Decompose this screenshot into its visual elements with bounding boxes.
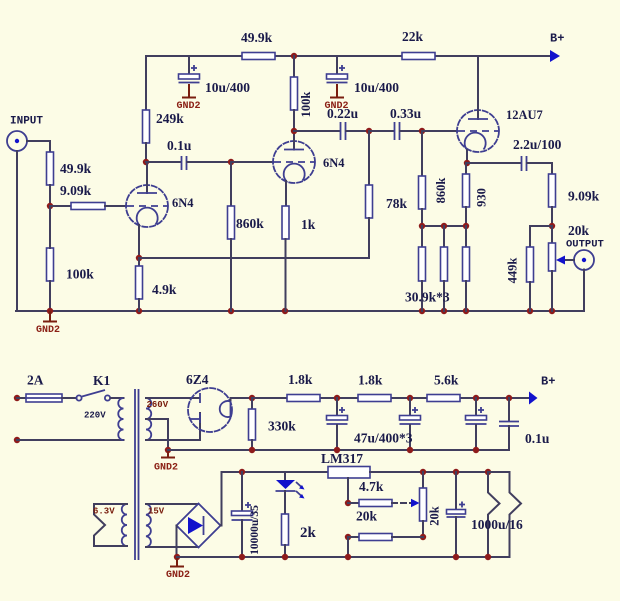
node AC terminal N bbox=[14, 437, 20, 443]
wire 260V centre tap to ground bbox=[146, 419, 168, 450]
resistor 930 bbox=[463, 163, 470, 226]
resistor 4.7k bbox=[348, 500, 392, 507]
svg-text:6N4: 6N4 bbox=[172, 196, 194, 210]
svg-text:930: 930 bbox=[475, 188, 489, 207]
wire 15V bottom to bridge bbox=[146, 546, 199, 548]
PSU-SECTION bbox=[14, 372, 556, 581]
capacitor 47u/400 no.2 bbox=[400, 398, 421, 450]
svg-text:2k: 2k bbox=[300, 525, 317, 541]
OUTPUT connector J2 bbox=[574, 250, 594, 270]
power B+ arrow (psu) bbox=[529, 375, 555, 405]
wire input to 49.9k column bbox=[27, 141, 50, 152]
svg-text:860k: 860k bbox=[236, 216, 264, 231]
ground GND2 (centre tap) bbox=[154, 447, 178, 474]
node V2 plate bbox=[291, 128, 297, 134]
potentiometer 20k output bbox=[549, 226, 556, 311]
wire output to rail bbox=[583, 270, 585, 312]
svg-text:49.9k: 49.9k bbox=[60, 161, 92, 176]
node V1 plate bbox=[143, 159, 149, 165]
wire 260V top to 6Z4 plate1 bbox=[146, 397, 199, 399]
resistor 30.9k no.1 bbox=[419, 226, 426, 311]
svg-text:GND2: GND2 bbox=[154, 463, 178, 474]
svg-text:B+: B+ bbox=[550, 32, 564, 46]
wire V3 cathode bbox=[466, 150, 468, 163]
INPUT connector J1 bbox=[7, 131, 27, 151]
wire divider row bbox=[422, 225, 466, 227]
resistor 20k lower bbox=[345, 534, 426, 558]
node 78k top bbox=[366, 128, 372, 134]
svg-text:249k: 249k bbox=[156, 111, 184, 126]
regulator LM317 bbox=[328, 467, 370, 479]
svg-text:20k: 20k bbox=[356, 509, 378, 524]
svg-text:47u/400*3: 47u/400*3 bbox=[354, 431, 413, 446]
wiper arrow to 20k pot bbox=[556, 256, 574, 265]
resistor 9.09k (output) bbox=[549, 174, 556, 226]
svg-text:0.1u: 0.1u bbox=[167, 138, 192, 153]
svg-text:6N4: 6N4 bbox=[323, 156, 345, 170]
triode V1 6N4 bbox=[126, 162, 168, 227]
rectifier tube 6Z4 bbox=[188, 388, 252, 432]
svg-text:LM317: LM317 bbox=[321, 451, 363, 466]
B+ filter rail bbox=[252, 397, 529, 399]
node AC terminal L bbox=[14, 395, 20, 401]
wire V1 cathode bbox=[138, 225, 140, 258]
resistor 5.6k bbox=[427, 395, 460, 402]
svg-text:0.1u: 0.1u bbox=[525, 431, 550, 446]
svg-text:1000u/16: 1000u/16 bbox=[471, 517, 523, 532]
wire V2 cathode to 1k bbox=[285, 181, 287, 206]
resistor 1.8k no.2 bbox=[358, 395, 391, 402]
wire 15V top to bridge bbox=[146, 503, 199, 505]
capacitor 47u/400 no.1 bbox=[327, 398, 348, 450]
node rail at 100k bbox=[291, 53, 297, 59]
svg-text:100k: 100k bbox=[299, 92, 313, 118]
svg-text:15V: 15V bbox=[148, 507, 165, 517]
node output divider bbox=[549, 223, 555, 229]
svg-text:2A: 2A bbox=[27, 373, 44, 388]
wire 9.09k to tube V1 grid bbox=[105, 205, 126, 207]
node V3 cathode bbox=[464, 160, 470, 166]
svg-text:B+: B+ bbox=[541, 375, 555, 389]
svg-text:9.09k: 9.09k bbox=[568, 189, 600, 204]
svg-text:20k: 20k bbox=[568, 223, 590, 238]
node filter 3 bbox=[473, 395, 479, 401]
ground GND2 (rail) bbox=[36, 311, 60, 336]
svg-text:6Z4: 6Z4 bbox=[186, 372, 209, 387]
svg-text:2.2u/100: 2.2u/100 bbox=[513, 137, 562, 152]
svg-text:1.8k: 1.8k bbox=[288, 372, 313, 387]
resistor 330k bleeder bbox=[249, 398, 256, 450]
node ground bus junctions bbox=[249, 447, 479, 453]
svg-text:49.9k: 49.9k bbox=[241, 30, 273, 45]
svg-text:GND2: GND2 bbox=[36, 325, 60, 336]
wire feedback from 78k bbox=[139, 257, 369, 259]
triode V2 6N4 bbox=[273, 131, 315, 183]
wire LM317 adj bbox=[347, 478, 349, 503]
bridge rectifier D1 bbox=[177, 504, 221, 548]
node low bus junctions bbox=[239, 554, 491, 560]
transformer 260V secondary winding bbox=[146, 398, 151, 440]
capacitor 10000u/35 bbox=[232, 469, 253, 557]
resistor 30.9k no.2 bbox=[441, 226, 448, 311]
fuse 2A bbox=[17, 394, 77, 402]
svg-text:860k: 860k bbox=[434, 178, 448, 204]
node grid junction bbox=[47, 203, 53, 209]
B+ rail (top) bbox=[146, 55, 549, 57]
node 860k2 top bbox=[419, 128, 425, 134]
svg-text:4.7k: 4.7k bbox=[359, 479, 384, 494]
svg-text:1k: 1k bbox=[301, 217, 316, 232]
capacitor 10u/400 no.2 bbox=[327, 56, 348, 83]
svg-text:6.3V: 6.3V bbox=[93, 507, 115, 517]
capacitor 0.22u bbox=[294, 122, 369, 140]
svg-text:1.8k: 1.8k bbox=[358, 373, 383, 388]
svg-text:220V: 220V bbox=[84, 411, 106, 421]
wiper arrow to 20k pot psu bbox=[392, 499, 420, 507]
svg-text:10000u/35: 10000u/35 bbox=[249, 505, 261, 555]
wire to V3 grid bbox=[422, 130, 457, 132]
svg-text:330k: 330k bbox=[268, 419, 296, 434]
resistor 249k bbox=[143, 56, 150, 162]
svg-text:GND2: GND2 bbox=[166, 570, 190, 581]
ground GND2 (bridge) bbox=[166, 554, 190, 581]
low ground bus bbox=[177, 556, 510, 558]
node 860k top bbox=[228, 159, 234, 165]
svg-text:30.9k*3: 30.9k*3 bbox=[405, 290, 450, 305]
resistor 49.9k (input series) bbox=[47, 152, 54, 185]
svg-text:0.22u: 0.22u bbox=[327, 106, 359, 121]
capacitor 1000u/16 bbox=[485, 469, 521, 557]
triode V3 12AU7 bbox=[457, 56, 499, 152]
transformer T1 primary winding bbox=[118, 398, 123, 440]
svg-text:INPUT: INPUT bbox=[10, 116, 43, 128]
wire bridge plus to LM317 bbox=[221, 472, 329, 526]
transformer T1 core bbox=[135, 389, 139, 560]
node rail junctions bbox=[47, 308, 555, 314]
resistor 100k (input shunt) bbox=[47, 248, 54, 281]
capacitor 0.1u coupling bbox=[146, 156, 231, 170]
capacitor 10u/400 no.1 bbox=[179, 56, 200, 83]
potentiometer 20k psu bbox=[420, 469, 427, 537]
wire bridge minus to ground bbox=[176, 526, 178, 558]
wire 100k to rail bbox=[49, 281, 51, 311]
capacitor 0.33u bbox=[369, 122, 422, 140]
svg-text:449k: 449k bbox=[506, 258, 520, 284]
node filter 1 bbox=[334, 395, 340, 401]
capacitor 47u/400 no.3 bbox=[466, 398, 487, 450]
wire input drop to ground rail bbox=[16, 151, 18, 311]
ground GND2 (cap1) bbox=[176, 84, 200, 112]
svg-text:20k: 20k bbox=[428, 506, 442, 526]
capacitor 20u tab bbox=[447, 469, 466, 557]
svg-text:K1: K1 bbox=[93, 373, 111, 388]
svg-text:9.09k: 9.09k bbox=[60, 183, 92, 198]
AMP-SECTION bbox=[7, 29, 604, 336]
resistor 1k bbox=[282, 206, 289, 311]
resistor 4.9k bbox=[136, 258, 143, 311]
resistor 22k (V3 plate load) bbox=[402, 53, 435, 60]
wire 49.9k to grid node bbox=[49, 185, 51, 206]
switch K1 bbox=[76, 390, 123, 401]
resistor 860k (V2 grid leak) bbox=[228, 162, 235, 311]
transformer 6.3V heater winding bbox=[94, 504, 127, 546]
svg-text:0.33u: 0.33u bbox=[390, 106, 422, 121]
svg-text:22k: 22k bbox=[402, 29, 424, 44]
diode LED indicator bbox=[276, 472, 305, 499]
svg-text:5.6k: 5.6k bbox=[434, 373, 459, 388]
node divider row junctions bbox=[419, 223, 469, 229]
wire 260V bottom to 6Z4 plate2 bbox=[146, 413, 200, 440]
resistor 78k bbox=[366, 131, 373, 258]
resistor 2k bbox=[282, 491, 289, 557]
node adj bbox=[345, 500, 351, 506]
wire AC N to primary bbox=[17, 439, 124, 441]
svg-text:10u/400: 10u/400 bbox=[354, 80, 399, 95]
capacitor 0.1u psu bbox=[499, 398, 519, 450]
node V1 cathode bbox=[136, 255, 142, 261]
wire to V2 grid bbox=[231, 161, 273, 163]
psu ground bus bbox=[168, 449, 509, 451]
svg-text:4.9k: 4.9k bbox=[152, 282, 177, 297]
node 0.1u tap bbox=[506, 395, 512, 401]
resistor 449k bbox=[527, 226, 553, 311]
wire grid node to 100k bbox=[49, 206, 51, 248]
svg-text:12AU7: 12AU7 bbox=[506, 108, 543, 122]
node filter 2 bbox=[407, 395, 413, 401]
svg-text:OUTPUT: OUTPUT bbox=[566, 239, 604, 251]
resistor 1.8k no.1 bbox=[287, 395, 320, 402]
resistor 860k (V3 grid leak) bbox=[419, 131, 426, 226]
transformer 15V secondary winding bbox=[146, 504, 151, 547]
svg-text:10u/400: 10u/400 bbox=[205, 80, 250, 95]
node rectifier output bbox=[249, 395, 255, 401]
wire to 9.09k bbox=[50, 205, 71, 207]
capacitor 2.2u/100 bbox=[467, 156, 552, 174]
ground GND2 (cap2) bbox=[324, 84, 348, 112]
svg-text:78k: 78k bbox=[386, 196, 408, 211]
ground rail (top section) bbox=[16, 310, 584, 312]
LM317 output rail bbox=[370, 471, 510, 473]
power B+ arrow (top) bbox=[550, 32, 564, 63]
svg-text:260V: 260V bbox=[147, 400, 169, 410]
resistor 30.9k no.3 bbox=[463, 226, 470, 311]
resistor 9.09k (grid stopper) bbox=[71, 203, 105, 210]
resistor 49.9k (V1 plate load) bbox=[242, 53, 275, 60]
resistor 100k (V2 plate load) bbox=[291, 56, 298, 131]
svg-text:100k: 100k bbox=[66, 267, 94, 282]
